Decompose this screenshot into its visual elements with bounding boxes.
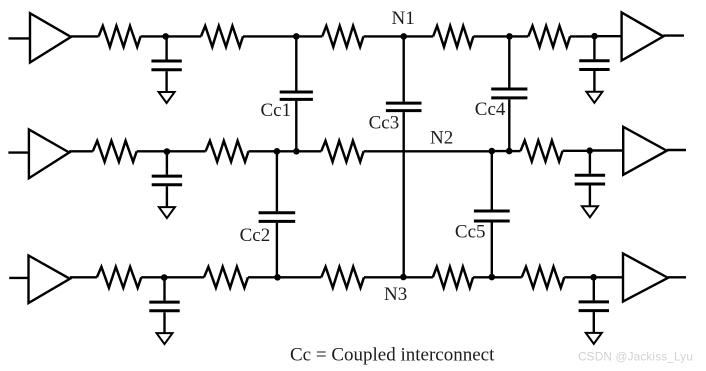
wire row2 seg g (crosses Cc3 line) <box>364 150 492 152</box>
capacitor C row2 left (to ground) <box>152 152 182 208</box>
node N1 <box>400 33 407 40</box>
wire row2 seg k <box>590 149 624 151</box>
wire row1 seg i <box>510 35 529 37</box>
svg-text:Cc1: Cc1 <box>261 100 292 121</box>
resistor row3 R3 <box>321 267 364 288</box>
wire row1 seg k <box>595 35 623 37</box>
node N3 <box>400 274 407 281</box>
node row3 junction Cc2 <box>274 274 281 281</box>
buffer U3 row2 left driver <box>29 130 69 179</box>
svg-text:Cc = Coupled interconnect: Cc = Coupled interconnect <box>290 345 495 366</box>
node row3 junction 2 <box>590 274 597 281</box>
wire Cc2 lower lead <box>276 223 278 277</box>
node row3 junction 1 <box>161 274 168 281</box>
wire row1 seg g <box>404 35 433 37</box>
ground below C row1 right (to ground) <box>586 92 602 103</box>
wire row3 input stub <box>9 277 31 279</box>
wire row1 seg h <box>473 35 509 37</box>
wire row1 seg d <box>243 35 296 37</box>
svg-text:N2: N2 <box>430 128 453 149</box>
wire row3 seg k <box>594 276 624 278</box>
node row1 junction Cc4 <box>506 33 513 40</box>
wire row2 seg e <box>277 150 297 152</box>
resistor row1 R2 <box>201 26 243 47</box>
capacitor C row2 right (to ground) <box>575 151 605 207</box>
svg-text:Cc4: Cc4 <box>475 99 506 120</box>
wire row2 seg i <box>509 150 520 152</box>
wire row1 seg e <box>296 35 322 37</box>
wire Cc5 upper lead <box>491 151 493 209</box>
svg-text:N3: N3 <box>384 284 407 305</box>
capacitor Cc5 <box>474 211 510 221</box>
wire row2 seg a <box>69 150 93 152</box>
resistor row3 R1 <box>97 267 141 288</box>
svg-text:Cc5: Cc5 <box>455 222 486 243</box>
wire row3 seg e <box>278 276 322 278</box>
wire row3 seg g <box>403 276 432 278</box>
wire Cc1 upper lead <box>295 36 297 90</box>
wire row2 seg d <box>249 150 277 152</box>
wire row3 seg b <box>141 276 164 278</box>
resistor row3 R2 <box>204 267 248 288</box>
resistor row1 R4 <box>433 26 473 47</box>
buffer U4 row2 right receiver <box>623 127 667 175</box>
node row2 junction Cc1 <box>293 148 300 155</box>
wire row1 input stub <box>9 37 32 39</box>
resistor row1 R1 <box>99 26 141 47</box>
svg-text:CSDN @Jackiss_Lyu: CSDN @Jackiss_Lyu <box>578 350 693 364</box>
wire Cc4 upper lead <box>508 36 510 87</box>
wire Cc1 lower lead <box>295 101 297 151</box>
wire row1 seg j <box>570 35 594 37</box>
resistor row3 R4 <box>433 267 473 288</box>
wire row3 seg h <box>473 276 492 278</box>
wire row2 seg c <box>167 150 206 152</box>
ground below C row3 left (to ground) <box>157 333 173 344</box>
ground below C row1 left (to ground) <box>159 92 175 103</box>
wire row3 seg a <box>70 276 97 278</box>
wire row3 output stub <box>668 276 686 278</box>
wire Cc2 upper lead <box>276 151 278 211</box>
node row2 junction Cc4 <box>506 148 513 155</box>
capacitor C row1 left (to ground) <box>151 36 181 92</box>
wire row1 output stub <box>663 34 684 36</box>
wire Cc4 lower lead <box>508 99 510 151</box>
wire row3 seg c <box>165 276 205 278</box>
capacitor C row3 left (to ground) <box>149 278 179 334</box>
resistor row3 R5 <box>522 267 565 288</box>
node row1 junction 2 <box>591 33 598 40</box>
ground below C row2 left (to ground) <box>159 207 175 218</box>
resistor row2 R3 <box>321 141 363 162</box>
wire row1 seg b <box>141 35 167 37</box>
buffer U1 row1 left driver <box>30 13 71 62</box>
node row3 junction Cc5 <box>489 274 496 281</box>
capacitor Cc3 <box>386 103 422 111</box>
resistor row2 R4 <box>521 141 563 162</box>
wire row1 seg f <box>364 35 404 37</box>
buffer U2 row1 right receiver <box>622 13 664 61</box>
node row2 junction Cc2 <box>274 148 281 155</box>
wire row2 seg b <box>137 150 167 152</box>
ground below C row2 right (to ground) <box>582 206 598 217</box>
wire row3 seg f <box>364 276 403 278</box>
wire row3 seg i <box>492 276 522 278</box>
node row1 junction Cc1 <box>293 33 300 40</box>
node row2 junction 2 <box>586 147 593 154</box>
wire row2 output stub <box>667 149 686 151</box>
svg-text:Cc2: Cc2 <box>240 225 271 246</box>
capacitor Cc4 <box>491 89 527 98</box>
svg-text:N1: N1 <box>392 8 415 29</box>
resistor row1 R5 <box>528 26 570 47</box>
wire row2 input stub <box>8 151 31 153</box>
wire row3 seg d <box>248 276 278 278</box>
wire row3 seg j <box>564 276 593 278</box>
resistor row1 R3 <box>322 26 363 47</box>
wire row2 seg h <box>492 150 509 152</box>
resistor row2 R1 <box>93 141 137 162</box>
capacitor Cc1 <box>280 92 313 99</box>
wire Cc3 upper lead <box>403 36 405 101</box>
wire row2 seg f <box>296 150 321 152</box>
svg-text:Cc3: Cc3 <box>369 113 400 134</box>
wire row2 seg j <box>563 150 591 152</box>
capacitor C row3 right (to ground) <box>579 277 609 333</box>
capacitor Cc2 <box>259 213 296 222</box>
wire row1 seg a <box>71 35 99 37</box>
resistor row2 R2 <box>206 141 249 162</box>
ground below C row3 right (to ground) <box>586 333 602 344</box>
node row2 junction 1 <box>164 148 171 155</box>
node row1 junction 1 <box>162 33 169 40</box>
node row2 junction Cc5 <box>489 148 496 155</box>
wire Cc3 lower lead <box>403 112 405 277</box>
buffer U5 row3 left driver <box>29 256 70 304</box>
wire Cc5 lower lead <box>491 223 493 278</box>
capacitor C row1 right (to ground) <box>579 36 609 92</box>
wire row1 seg c <box>167 35 202 37</box>
buffer U6 row3 right receiver <box>623 254 668 302</box>
